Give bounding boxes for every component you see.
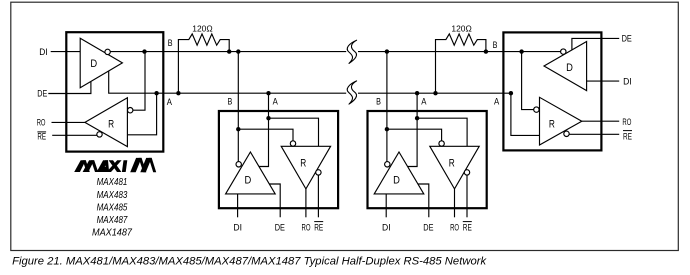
break symbol A line xyxy=(347,81,356,104)
svg-text:MAX487: MAX487 xyxy=(97,214,129,226)
svg-text:A: A xyxy=(421,96,427,107)
wire DI stub U3 xyxy=(385,194,387,217)
bubble D3 inverting output xyxy=(385,162,390,167)
resistor RT2 120 ohm xyxy=(436,34,486,93)
wire A bus right segment xyxy=(358,92,511,94)
wire DI input U4 xyxy=(587,80,620,82)
wire B to R1 inverting input xyxy=(133,52,145,111)
svg-text:B: B xyxy=(228,96,233,107)
junction dot RT1 to A xyxy=(176,91,180,95)
junction dot B inside U1 xyxy=(142,49,146,53)
bubble D2 inverting output xyxy=(236,162,241,167)
svg-text:DE: DE xyxy=(37,88,47,98)
wire DE stub U3 xyxy=(418,184,429,217)
wire B bus right segment xyxy=(358,51,561,53)
svg-text:B: B xyxy=(376,96,381,107)
svg-text:RO: RO xyxy=(37,118,46,128)
bubble D4 inverting output xyxy=(561,49,566,54)
bubble R2 inverting input xyxy=(290,141,295,146)
svg-text:D: D xyxy=(393,174,400,186)
junction dot A stub U3 xyxy=(415,91,419,95)
svg-text:RO: RO xyxy=(302,223,311,234)
driver D3 triangle (points up) xyxy=(374,152,424,194)
wire B to R4 inverting input xyxy=(522,52,534,110)
wire DE input U4 xyxy=(572,38,619,50)
receiver R1 triangle xyxy=(85,98,128,147)
svg-text:R: R xyxy=(300,158,306,170)
wire A to R1 noninverting input xyxy=(127,93,156,135)
junction dot A stub U2 xyxy=(266,91,270,95)
wire RE stub U2 xyxy=(317,175,319,217)
svg-text:D: D xyxy=(566,62,573,74)
wire RO output U1 xyxy=(52,121,85,123)
svg-text:120Ω: 120Ω xyxy=(192,23,212,33)
wire B stub U3 xyxy=(386,52,388,162)
receiver R3 triangle (points down) xyxy=(430,146,479,189)
svg-text:R: R xyxy=(549,119,555,131)
svg-text:DI: DI xyxy=(39,47,47,57)
wire A stub U3 xyxy=(408,93,418,166)
bubble R4 inverting input xyxy=(534,107,539,112)
svg-text:A: A xyxy=(167,97,173,108)
wire A stub U2 xyxy=(259,93,269,166)
junction dot A branch U2 xyxy=(266,116,270,120)
svg-text:A: A xyxy=(494,97,500,108)
junction dot RT2 to B xyxy=(484,49,488,53)
svg-text:DE: DE xyxy=(423,223,433,234)
svg-text:D: D xyxy=(245,174,252,186)
svg-text:RE: RE xyxy=(314,223,323,234)
wire RO stub U3 xyxy=(454,189,456,217)
wire A to R2 noninverting input xyxy=(269,118,319,146)
junction dot B inside U4 xyxy=(519,49,523,53)
wire RE stub U3 xyxy=(466,175,468,217)
wire A to R3 noninverting input xyxy=(417,118,467,146)
wire RO stub U2 xyxy=(305,189,307,217)
wire DI input U1 xyxy=(51,51,80,53)
wire A bus left segment xyxy=(109,71,347,93)
wire B bus left segment xyxy=(110,51,346,53)
wire B stub U2 xyxy=(237,52,239,162)
svg-text:MAX481: MAX481 xyxy=(97,176,128,188)
driver D1 triangle xyxy=(80,38,122,87)
junction dot B branch U3 xyxy=(385,127,389,131)
svg-text:RE: RE xyxy=(623,131,632,142)
svg-text:RO: RO xyxy=(450,223,459,234)
svg-text:DE: DE xyxy=(622,34,632,45)
transceiver U2 box (middle-left) xyxy=(219,111,338,208)
transceiver U4 box (right) xyxy=(503,32,601,150)
svg-text:RE: RE xyxy=(37,132,46,142)
wire B to R2 inverting input xyxy=(238,129,293,141)
junction dot A inside U1 xyxy=(154,91,158,95)
bubble R1 enable RE xyxy=(97,132,102,137)
receiver R2 triangle (points down) xyxy=(281,146,330,189)
svg-text:DI: DI xyxy=(623,76,632,87)
wire RE input U4 xyxy=(569,133,619,135)
bubble R4 enable RE xyxy=(564,131,569,136)
MAXIM logo xyxy=(74,158,156,172)
junction dot RT2 to A xyxy=(433,91,437,95)
driver D2 triangle (points up) xyxy=(226,152,276,194)
bubble R1 inverting input xyxy=(128,108,133,113)
wire DE stub U2 xyxy=(269,184,280,217)
bubble R3 enable RE xyxy=(464,170,469,175)
svg-text:MAX483: MAX483 xyxy=(97,189,128,201)
driver D4 triangle (points left) xyxy=(544,42,587,91)
svg-text:RE: RE xyxy=(463,223,472,234)
resistor RT1 120 ohm xyxy=(178,34,229,93)
svg-text:120Ω: 120Ω xyxy=(451,23,471,33)
break symbol B line xyxy=(347,40,356,63)
svg-text:A: A xyxy=(273,96,279,107)
junction dot A inside U4 xyxy=(509,91,513,95)
svg-text:RO: RO xyxy=(622,117,631,128)
svg-text:D: D xyxy=(90,58,97,70)
wire DI stub U2 xyxy=(237,194,239,217)
wire A to R4 noninverting input xyxy=(511,93,540,135)
junction dot RT1 to B xyxy=(227,49,231,53)
wire RE input U1 xyxy=(52,134,97,136)
svg-text:DI: DI xyxy=(382,223,391,234)
junction dot B stub U2 xyxy=(236,49,240,53)
bubble R2 enable RE xyxy=(316,170,321,175)
junction dot A branch U3 xyxy=(415,116,419,120)
svg-text:R: R xyxy=(449,158,455,170)
receiver R4 triangle (points right) xyxy=(540,97,582,145)
svg-text:B: B xyxy=(493,40,498,51)
wire RO output U4 xyxy=(582,120,619,122)
svg-text:Figure 21. MAX481/MAX483/MAX48: Figure 21. MAX481/MAX483/MAX485/MAX487/M… xyxy=(12,256,487,268)
svg-text:MAX485: MAX485 xyxy=(97,201,128,213)
svg-text:R: R xyxy=(108,118,114,130)
bubble D1 inverting output xyxy=(105,49,110,54)
bubble R3 inverting input xyxy=(439,141,444,146)
svg-text:DE: DE xyxy=(275,223,285,234)
junction dot B stub U3 xyxy=(385,49,389,53)
svg-text:MAX1487: MAX1487 xyxy=(92,227,133,239)
transceiver U1 box (left) xyxy=(66,32,163,151)
wire B to R3 inverting input xyxy=(387,129,442,141)
wire DE input U1 xyxy=(48,81,91,93)
transceiver U3 box (middle-right) xyxy=(368,111,487,208)
svg-text:DI: DI xyxy=(233,223,242,234)
svg-text:B: B xyxy=(168,38,173,49)
junction dot B branch U2 xyxy=(236,127,240,131)
